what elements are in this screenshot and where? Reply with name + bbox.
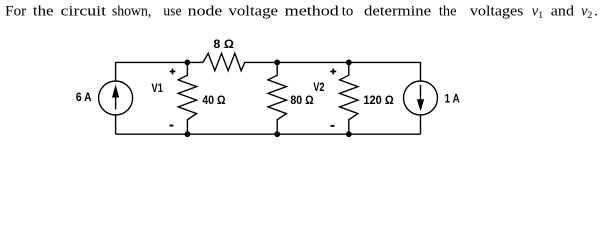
svg-text:120 Ω: 120 Ω	[363, 93, 394, 107]
svg-text:voltage: voltage	[229, 4, 279, 20]
svg-text:the: the	[33, 4, 54, 20]
svg-text:circuit: circuit	[61, 4, 107, 20]
svg-text:V1: V1	[152, 83, 164, 95]
svg-text:8 Ω: 8 Ω	[213, 37, 234, 51]
svg-text:6 A: 6 A	[76, 90, 92, 104]
svg-text:For: For	[5, 4, 26, 20]
svg-text:and: and	[551, 4, 574, 20]
svg-text:node: node	[188, 4, 223, 20]
svg-text:voltages: voltages	[470, 4, 524, 20]
svg-text:2: 2	[587, 10, 592, 21]
svg-text:use: use	[163, 4, 181, 20]
svg-text:to: to	[342, 4, 354, 20]
svg-text:1 A: 1 A	[445, 91, 460, 105]
svg-text:determine: determine	[364, 4, 431, 20]
svg-text:40 Ω: 40 Ω	[202, 93, 226, 107]
svg-text:1: 1	[538, 10, 543, 21]
svg-text:V2: V2	[313, 82, 324, 94]
svg-text:shown,: shown,	[112, 4, 151, 20]
svg-text:80 Ω: 80 Ω	[290, 93, 314, 107]
svg-text:method: method	[285, 4, 339, 20]
svg-text:the: the	[439, 4, 457, 20]
svg-text:.: .	[594, 4, 598, 20]
